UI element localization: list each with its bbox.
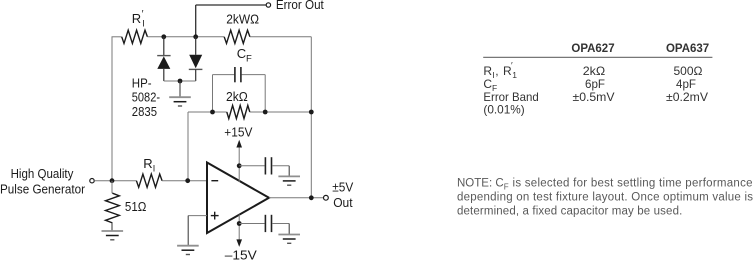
svg-text:OPA637: OPA637 (666, 43, 709, 55)
svg-text:I: I (153, 164, 156, 174)
svg-text:5082-: 5082- (132, 90, 160, 105)
svg-text:±0.5mV: ±0.5mV (573, 90, 615, 104)
svg-text:Pulse Generator: Pulse Generator (0, 181, 86, 196)
svg-text:±0.2mV: ±0.2mV (666, 90, 708, 104)
svg-text:′: ′ (511, 60, 513, 70)
svg-text:Error Out: Error Out (276, 0, 324, 12)
svg-text:C: C (237, 46, 246, 61)
svg-text:HP-: HP- (132, 75, 152, 90)
svg-text:High Quality: High Quality (11, 166, 74, 181)
svg-text:Out: Out (333, 195, 353, 210)
svg-text:F: F (504, 182, 509, 191)
svg-text:6pF: 6pF (585, 77, 605, 91)
svg-text:NOTE: C: NOTE: C (457, 177, 504, 189)
svg-text:±5V: ±5V (332, 179, 353, 194)
svg-text:51Ω: 51Ω (125, 199, 147, 214)
svg-text:R: R (132, 11, 141, 26)
svg-text:2kΩ: 2kΩ (583, 64, 606, 78)
svg-text:R: R (483, 64, 492, 78)
svg-text:4pF: 4pF (676, 77, 696, 91)
svg-text:I: I (142, 19, 145, 29)
svg-text:OPA627: OPA627 (571, 43, 614, 55)
svg-text:–15V: –15V (225, 248, 257, 263)
svg-text:,: , (495, 64, 498, 78)
svg-text:1: 1 (512, 70, 517, 80)
svg-text:(0.01%): (0.01%) (483, 103, 524, 117)
svg-text:500Ω: 500Ω (674, 64, 703, 78)
svg-text:+15V: +15V (224, 125, 252, 140)
svg-text:R: R (143, 156, 152, 171)
svg-text:2kWΩ: 2kWΩ (226, 11, 259, 26)
svg-text:depending on test fixture layo: depending on test fixture layout. Once o… (457, 192, 753, 204)
svg-text:determined, a fixed capacitor: determined, a fixed capacitor may be use… (457, 206, 682, 218)
svg-text:2kΩ: 2kΩ (226, 89, 248, 104)
svg-text:F: F (246, 54, 252, 65)
svg-text:2835: 2835 (132, 104, 157, 119)
svg-text:is selected for best settling: is selected for best settling time perfo… (513, 177, 753, 189)
